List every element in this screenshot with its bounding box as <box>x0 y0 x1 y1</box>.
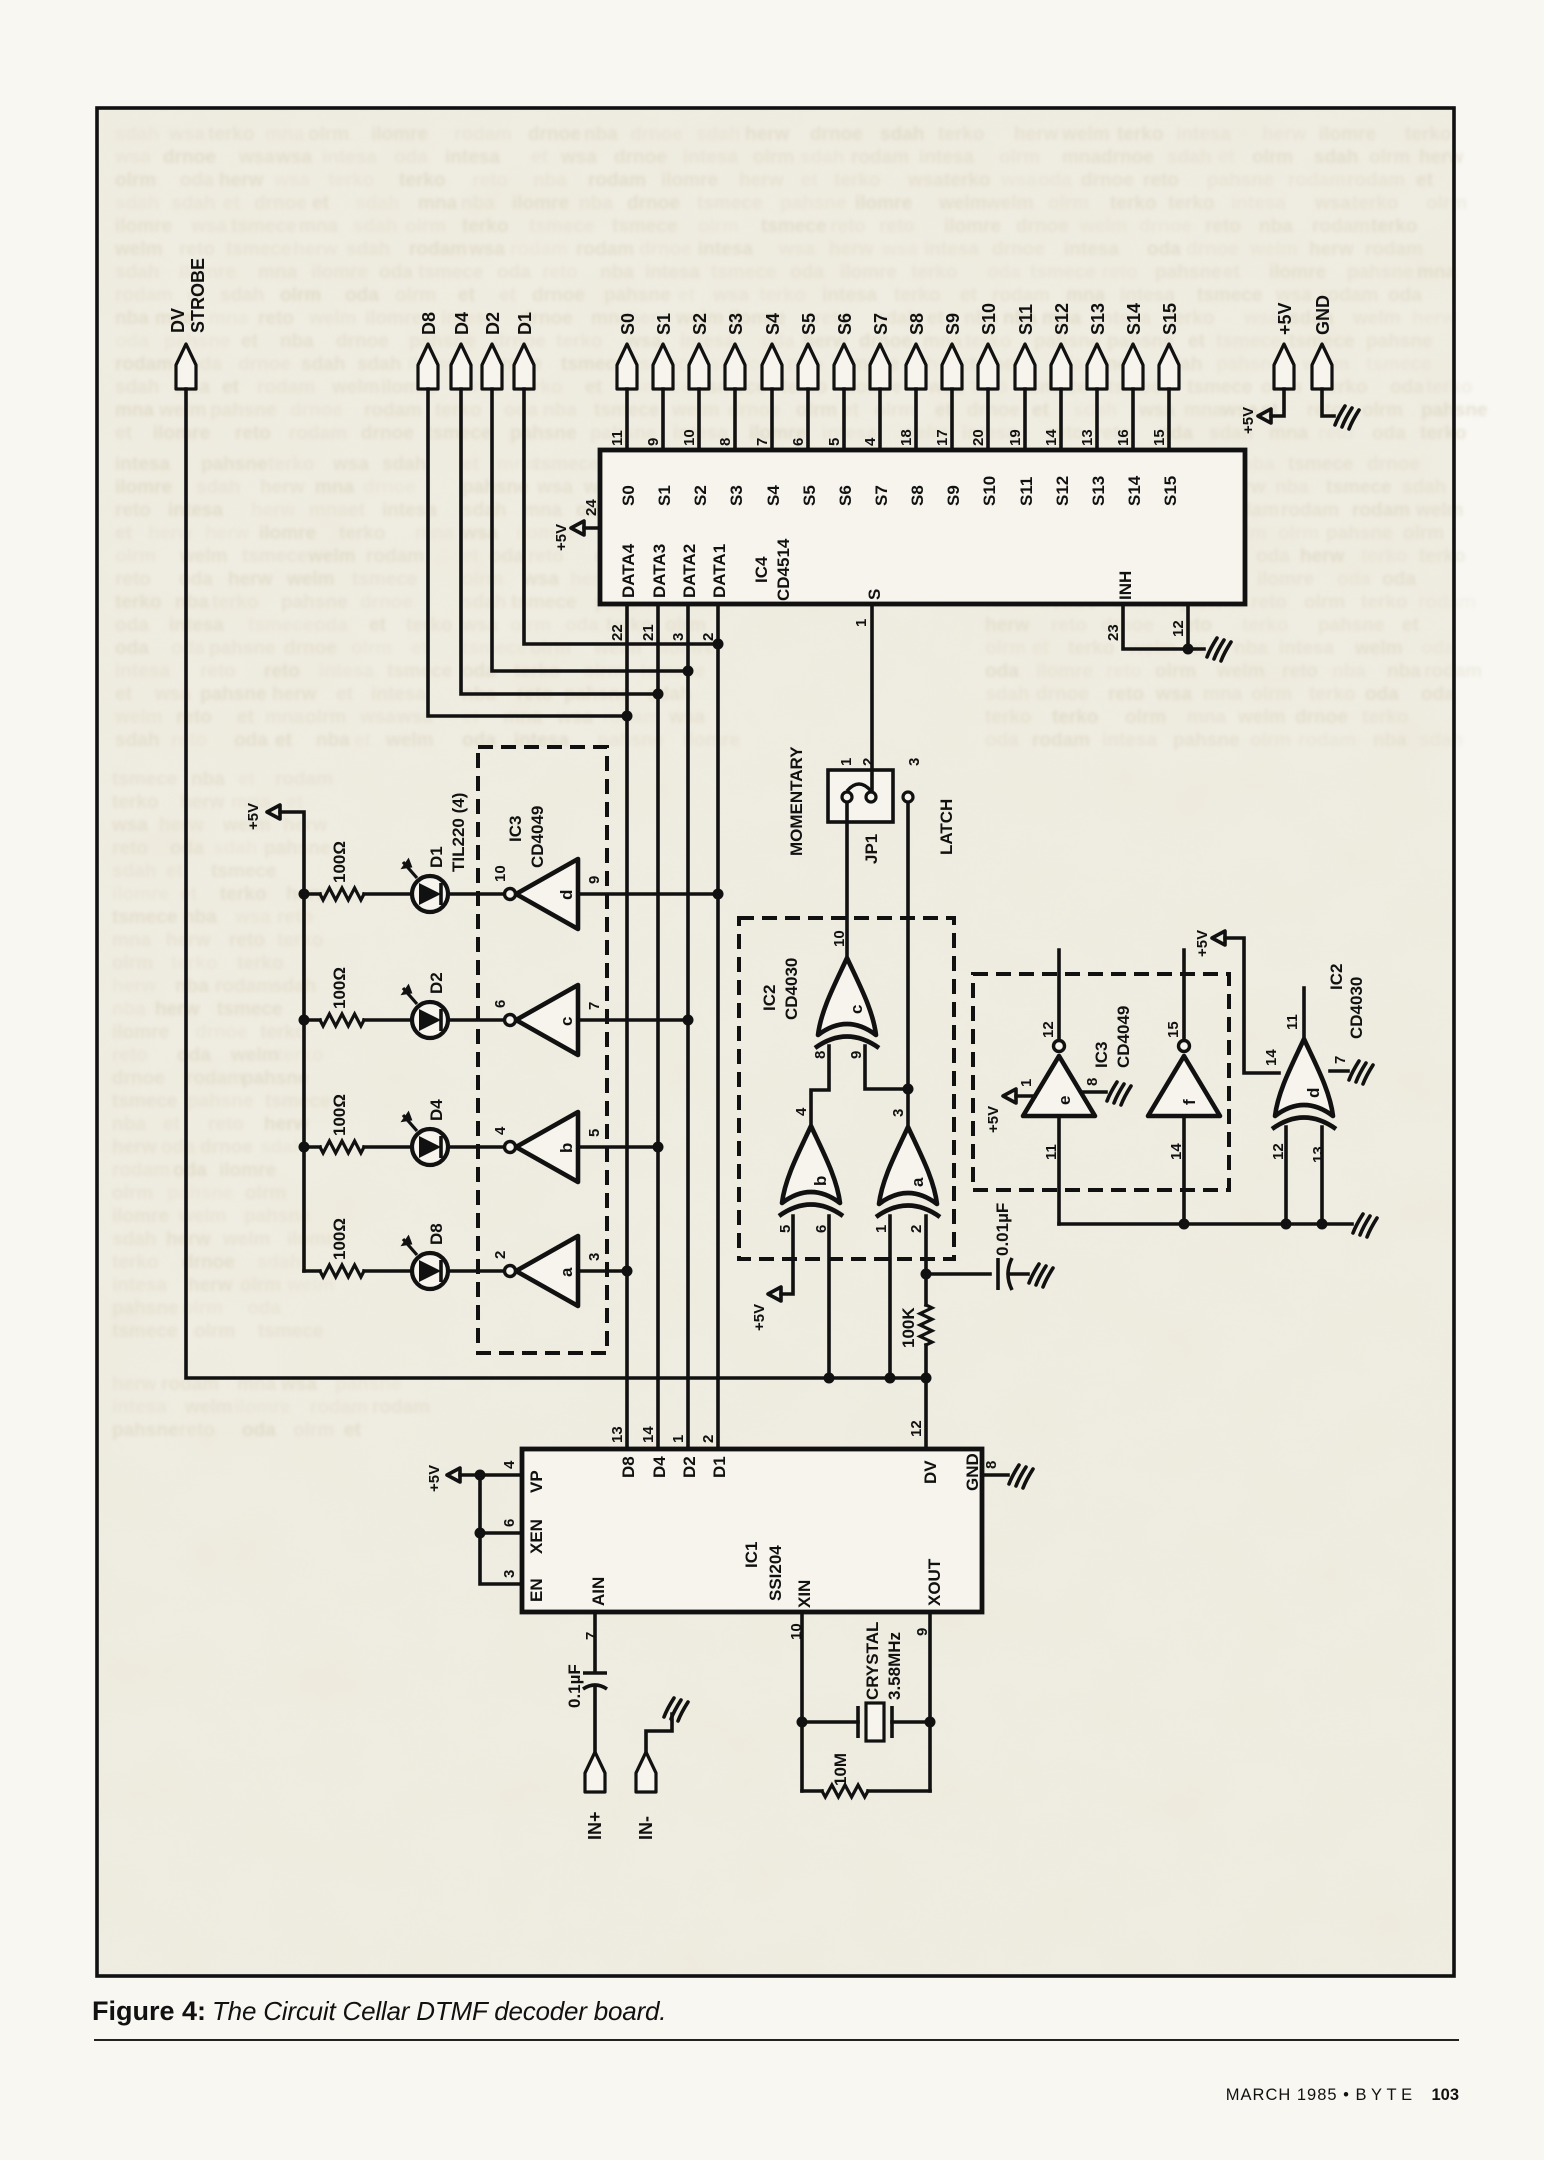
svg-text:D8: D8 <box>427 1223 446 1245</box>
svg-text:sdah: sdah <box>1167 147 1211 168</box>
svg-text:MARCH 1985 • BYTE 103: MARCH 1985 • BYTE 103 <box>1226 2086 1459 2104</box>
svg-text:welm: welm <box>114 707 163 728</box>
svg-text:herw: herw <box>829 239 874 260</box>
svg-text:terko: terko <box>1362 707 1408 728</box>
svg-text:S3: S3 <box>727 485 746 506</box>
svg-text:herw: herw <box>228 569 273 590</box>
svg-text:wsa: wsa <box>536 477 573 498</box>
svg-text:nba: nba <box>584 124 618 145</box>
junction VP node <box>475 1470 486 1481</box>
svg-text:terko: terko <box>894 285 940 306</box>
svg-text:drnoe: drnoe <box>630 124 683 145</box>
svg-text:terko: terko <box>834 170 880 191</box>
svg-text:drnoe: drnoe <box>195 1022 248 1043</box>
svg-text:welm: welm <box>1061 124 1110 145</box>
svg-text:olrm: olrm <box>1252 147 1293 168</box>
svg-text:ilomre: ilomre <box>1257 569 1314 590</box>
svg-text:wsa: wsa <box>114 147 151 168</box>
svg-text:terko: terko <box>171 953 217 974</box>
svg-text:wsa: wsa <box>522 569 559 590</box>
svg-text:herw: herw <box>260 477 305 498</box>
svg-text:rodam: rodam <box>115 285 173 306</box>
svg-text:ilomre: ilomre <box>855 193 912 214</box>
svg-text:pahsne: pahsne <box>167 1183 234 1204</box>
svg-text:3: 3 <box>670 633 687 641</box>
svg-text:et: et <box>1032 638 1050 659</box>
svg-text:mna: mna <box>1066 285 1106 306</box>
svg-text:S1: S1 <box>654 313 674 335</box>
svg-text:wsa: wsa <box>881 239 918 260</box>
svg-text:oda: oda <box>504 400 538 421</box>
svg-text:14: 14 <box>640 1426 657 1443</box>
svg-text:wsa: wsa <box>168 124 205 145</box>
IC3 CD4049 dashed outline <box>478 747 607 1353</box>
svg-text:intesa: intesa <box>112 1397 167 1418</box>
svg-text:drnoe: drnoe <box>1367 454 1420 475</box>
IC1 XOUT pin 9 <box>914 1558 944 1636</box>
svg-text:reto: reto <box>542 262 578 283</box>
connector S12 <box>1051 303 1072 389</box>
svg-text:oda: oda <box>247 1298 281 1319</box>
svg-text:et: et <box>312 193 330 214</box>
svg-text:AIN: AIN <box>589 1577 608 1606</box>
svg-text:et: et <box>678 285 696 306</box>
inverter IC3-f <box>1148 1021 1220 1160</box>
svg-text:CD4514: CD4514 <box>774 538 793 601</box>
wire S1 stub <box>661 389 665 450</box>
svg-text:ilomre: ilomre <box>840 262 897 283</box>
svg-text:herw: herw <box>1419 147 1464 168</box>
svg-text:pahsne: pahsne <box>1173 730 1240 751</box>
svg-text:drnoe: drnoe <box>614 147 667 168</box>
svg-text:ilomre: ilomre <box>944 216 1001 237</box>
svg-text:rodam: rodam <box>310 1397 368 1418</box>
IC1 pin 4 VP <box>501 1460 546 1493</box>
svg-text:sdah: sdah <box>985 684 1029 705</box>
svg-text:sdah: sdah <box>353 216 397 237</box>
svg-text:DV: DV <box>921 1460 940 1484</box>
svg-text:intesa: intesa <box>822 285 877 306</box>
svg-text:nba: nba <box>533 170 567 191</box>
svg-text:olrm: olrm <box>1278 523 1319 544</box>
svg-text:olrm: olrm <box>405 216 446 237</box>
svg-text:oda: oda <box>1256 546 1290 567</box>
wire XOUT column <box>928 1612 932 1791</box>
svg-text:reto: reto <box>115 569 151 590</box>
svg-text:intesa: intesa <box>1064 239 1119 260</box>
svg-text:rodam: rodam <box>1288 170 1346 191</box>
XOR gate IC2-b <box>777 1107 843 1233</box>
wire XOR d input 13 to bus <box>1320 1127 1324 1224</box>
svg-text:oda: oda <box>1421 638 1455 659</box>
svg-text:rodam: rodam <box>992 285 1050 306</box>
svg-text:oda: oda <box>180 170 214 191</box>
svg-text:tsmece: tsmece <box>612 216 678 237</box>
svg-text:D1: D1 <box>515 312 535 335</box>
svg-text:oda: oda <box>1390 377 1424 398</box>
svg-text:ilomre: ilomre <box>661 170 718 191</box>
wire ground bus <box>1059 1222 1352 1226</box>
svg-text:23: 23 <box>1105 624 1122 641</box>
svg-text:S0: S0 <box>618 313 638 335</box>
svg-text:S0: S0 <box>619 485 638 506</box>
svg-text:rodam: rodam <box>372 1397 430 1418</box>
svg-text:intesa: intesa <box>919 147 974 168</box>
svg-text:XIN: XIN <box>795 1580 814 1608</box>
svg-text:olrm: olrm <box>293 1420 334 1441</box>
svg-text:3.58MHz: 3.58MHz <box>885 1632 904 1700</box>
svg-text:oda: oda <box>115 615 149 636</box>
svg-text:terko: terko <box>339 523 385 544</box>
svg-text:intesa: intesa <box>112 1275 167 1296</box>
svg-text:ilomre: ilomre <box>153 423 210 444</box>
svg-text:c: c <box>557 1017 576 1026</box>
wire S15 stub <box>1167 389 1171 450</box>
svg-text:reto: reto <box>235 423 271 444</box>
svg-text:rodam: rodam <box>588 170 646 191</box>
svg-text:IN+: IN+ <box>585 1811 605 1840</box>
svg-text:intesa: intesa <box>683 147 738 168</box>
svg-text:tsmece: tsmece <box>534 454 600 475</box>
svg-text:sdah: sdah <box>112 861 156 882</box>
svg-text:et: et <box>241 331 259 352</box>
wire XOR b pin6 to DV bus <box>827 1216 831 1378</box>
crystal 3.58MHz <box>858 1622 904 1741</box>
svg-text:JP1: JP1 <box>862 834 881 864</box>
svg-text:wsa: wsa <box>907 170 944 191</box>
connector DV STROBE <box>168 258 208 389</box>
svg-text:VP: VP <box>527 1470 546 1493</box>
junction inverter output to column row D2 <box>683 1015 694 1026</box>
svg-text:reto: reto <box>277 907 313 928</box>
wire S5 stub <box>806 389 810 450</box>
svg-text:S9: S9 <box>944 485 963 506</box>
svg-text:et: et <box>115 423 133 444</box>
svg-text:nba: nba <box>112 1114 146 1135</box>
wire LED to inverter row D1 <box>448 892 504 896</box>
svg-text:terko: terko <box>115 592 161 613</box>
svg-text:tsmece: tsmece <box>248 615 314 636</box>
svg-text:18: 18 <box>898 429 915 446</box>
svg-text:reto: reto <box>1143 170 1179 191</box>
svg-text:tsmece: tsmece <box>352 569 418 590</box>
svg-text:et: et <box>115 684 133 705</box>
svg-text:welm: welm <box>1415 500 1464 521</box>
svg-text:oda: oda <box>987 262 1021 283</box>
connector S14 <box>1123 303 1144 389</box>
svg-text:c: c <box>847 1005 866 1014</box>
svg-text:et: et <box>1416 170 1434 191</box>
wire S11 stub <box>1023 389 1027 450</box>
svg-text:pahsne: pahsne <box>281 592 348 613</box>
svg-text:wsa: wsa <box>560 147 597 168</box>
svg-text:3: 3 <box>586 1253 603 1261</box>
svg-text:pahsne: pahsne <box>462 477 529 498</box>
svg-text:drnoe: drnoe <box>363 477 416 498</box>
junction D4 column <box>653 689 664 700</box>
svg-text:drnoe: drnoe <box>254 193 307 214</box>
svg-text:reto: reto <box>1102 262 1138 283</box>
svg-text:et: et <box>223 193 241 214</box>
svg-text:et: et <box>348 500 366 521</box>
wire D4 jog to DATA column <box>461 389 658 694</box>
svg-text:wsa: wsa <box>359 707 396 728</box>
svg-text:9: 9 <box>645 438 662 446</box>
svg-text:CRYSTAL: CRYSTAL <box>863 1622 882 1700</box>
svg-text:intesa: intesa <box>1120 285 1175 306</box>
svg-text:0.01µF: 0.01µF <box>993 1203 1012 1256</box>
svg-text:S5: S5 <box>800 485 819 506</box>
svg-text:welm: welm <box>222 1229 271 1250</box>
svg-text:et: et <box>1218 147 1236 168</box>
junction D2 column <box>683 666 694 677</box>
svg-text:Figure 4:: Figure 4: <box>92 1996 206 2026</box>
connector GND top right <box>1312 295 1333 389</box>
svg-text:et: et <box>1188 331 1206 352</box>
svg-text:S7: S7 <box>872 485 891 506</box>
svg-text:IC2: IC2 <box>760 985 779 1011</box>
svg-text:et: et <box>462 546 480 567</box>
svg-text:S12: S12 <box>1052 303 1072 335</box>
svg-text:reto: reto <box>1106 661 1142 682</box>
wire resistor to LED row D1 <box>364 892 412 896</box>
capacitor 0.01uF <box>993 1203 1012 1290</box>
power +5V XOR b pin5 <box>751 1287 781 1331</box>
svg-text:welm: welm <box>114 239 163 260</box>
connector S0 <box>617 313 638 389</box>
svg-text:pahsne: pahsne <box>264 838 331 859</box>
wire XOR a pin1 to DV bus <box>888 1216 892 1378</box>
svg-text:100Ω: 100Ω <box>330 1094 349 1136</box>
svg-text:tsmece: tsmece <box>112 769 178 790</box>
svg-text:wsa: wsa <box>712 285 749 306</box>
svg-text:S11: S11 <box>1016 304 1036 335</box>
svg-text:reto: reto <box>208 1114 244 1135</box>
svg-text:TIL220 (4): TIL220 (4) <box>449 793 468 872</box>
svg-text:olrm: olrm <box>530 638 571 659</box>
svg-text:DATA4: DATA4 <box>619 543 638 598</box>
svg-text:intesa: intesa <box>1231 193 1286 214</box>
svg-text:rodam: rodam <box>186 1068 244 1089</box>
svg-text:+5V: +5V <box>985 1106 1002 1133</box>
svg-text:S13: S13 <box>1089 476 1108 506</box>
svg-text:welm: welm <box>158 400 207 421</box>
svg-text:8: 8 <box>983 1461 1000 1469</box>
svg-text:et: et <box>1223 262 1241 283</box>
svg-text:rodam: rodam <box>1032 730 1090 751</box>
svg-text:mna: mna <box>1184 400 1224 421</box>
svg-text:terko: terko <box>1361 546 1407 567</box>
svg-text:terko: terko <box>1052 707 1098 728</box>
svg-text:mna: mna <box>209 308 249 329</box>
svg-text:rodam: rodam <box>1365 239 1423 260</box>
svg-text:rodam: rodam <box>510 239 568 260</box>
junction 100K DV bus <box>921 1373 932 1384</box>
junction D8 column <box>622 711 633 722</box>
svg-text:terko: terko <box>759 285 805 306</box>
svg-text:tsmece: tsmece <box>112 1091 178 1112</box>
svg-text:a: a <box>908 1177 927 1187</box>
junction D1 column <box>713 639 724 650</box>
svg-text:terko: terko <box>212 592 258 613</box>
svg-text:mna: mna <box>112 930 152 951</box>
ground e pin8 <box>1107 1082 1131 1105</box>
ground 0.01uF <box>1029 1264 1053 1287</box>
svg-text:olrm: olrm <box>308 124 349 145</box>
svg-text:S2: S2 <box>690 313 710 335</box>
junction inverter output to column row D4 <box>653 1142 664 1153</box>
svg-text:wsa: wsa <box>1314 193 1351 214</box>
svg-text:et: et <box>960 285 978 306</box>
svg-text:mna: mna <box>115 400 155 421</box>
svg-text:oda: oda <box>234 730 268 751</box>
wire XOR c input 9 to latch line <box>865 1046 908 1089</box>
svg-text:+5V: +5V <box>1240 407 1257 434</box>
wire LED to inverter row D8 <box>448 1269 504 1273</box>
svg-text:7: 7 <box>583 1632 600 1640</box>
svg-text:pahsne: pahsne <box>1347 262 1414 283</box>
svg-text:terko: terko <box>462 216 508 237</box>
svg-text:tsmece: tsmece <box>112 907 178 928</box>
svg-text:sdah: sdah <box>462 592 506 613</box>
wire crystal left <box>802 1720 858 1724</box>
svg-text:et: et <box>163 1114 181 1135</box>
svg-text:rodam: rodam <box>257 377 315 398</box>
svg-text:oda: oda <box>173 1160 207 1181</box>
svg-text:12: 12 <box>1040 1021 1057 1038</box>
connector S5 <box>798 313 819 389</box>
svg-text:drnoe: drnoe <box>1186 239 1239 260</box>
svg-text:ilomre: ilomre <box>1036 661 1093 682</box>
svg-text:et: et <box>286 792 304 813</box>
svg-text:terko: terko <box>112 792 158 813</box>
svg-text:S10: S10 <box>979 303 999 335</box>
svg-text:intesa: intesa <box>319 661 374 682</box>
svg-text:D1: D1 <box>427 846 446 868</box>
svg-text:S15: S15 <box>1160 303 1180 335</box>
wire +5V arrow to VP node <box>460 1473 480 1477</box>
svg-text:pahsne: pahsne <box>201 454 268 475</box>
svg-text:et: et <box>458 285 476 306</box>
wire inverter output row D1 <box>578 892 718 896</box>
svg-text:herw: herw <box>293 239 338 260</box>
svg-text:S6: S6 <box>835 313 855 335</box>
svg-text:herw: herw <box>1014 124 1059 145</box>
svg-text:reto: reto <box>1051 615 1087 636</box>
svg-text:D4: D4 <box>427 1099 446 1121</box>
svg-text:sdah: sdah <box>115 193 159 214</box>
svg-text:olrm: olrm <box>1426 193 1467 214</box>
svg-text:nba: nba <box>600 262 634 283</box>
svg-text:herw: herw <box>739 170 784 191</box>
svg-text:herw: herw <box>1300 546 1345 567</box>
svg-text:herw: herw <box>205 523 250 544</box>
svg-text:herw: herw <box>264 1114 309 1135</box>
svg-text:sdah: sdah <box>346 239 390 260</box>
svg-text:tsmece: tsmece <box>761 216 827 237</box>
svg-text:S13: S13 <box>1088 303 1108 335</box>
junction rail row D2 <box>299 1015 310 1026</box>
svg-text:mna: mna <box>315 477 355 498</box>
junction d pin13 bus <box>1317 1219 1328 1230</box>
power +5V IC1 VP <box>426 1465 460 1492</box>
wire crystal right <box>892 1720 930 1724</box>
svg-text:S4: S4 <box>764 485 783 506</box>
svg-text:ilomre: ilomre <box>512 193 569 214</box>
svg-text:10: 10 <box>681 429 698 446</box>
svg-text:nba: nba <box>1259 216 1293 237</box>
svg-text:b: b <box>811 1176 830 1186</box>
connector IN+ <box>585 1752 605 1840</box>
svg-text:terko: terko <box>220 884 266 905</box>
svg-text:DATA1: DATA1 <box>710 544 729 598</box>
caption rule <box>94 2039 1459 2041</box>
svg-text:+5V: +5V <box>426 1465 443 1492</box>
svg-text:DATA3: DATA3 <box>650 544 669 598</box>
wire S8 stub <box>914 389 918 450</box>
svg-text:reto: reto <box>229 930 265 951</box>
svg-text:terko: terko <box>237 953 283 974</box>
svg-text:tsmece: tsmece <box>1288 454 1354 475</box>
svg-text:rodam: rodam <box>115 354 173 375</box>
wire +5V connector stub <box>1271 389 1284 416</box>
wire XOR d input 12 to bus <box>1284 1127 1288 1224</box>
IC4 pin 24 wire <box>583 499 600 528</box>
svg-text:herw: herw <box>219 170 264 191</box>
svg-text:S8: S8 <box>908 485 927 506</box>
svg-text:nba: nba <box>316 730 350 751</box>
svg-text:intesa: intesa <box>924 239 979 260</box>
wire S2 stub <box>697 389 701 450</box>
LED D2 TIL220 <box>400 972 448 1038</box>
svg-text:sdah: sdah <box>462 500 506 521</box>
wire f input pin14 to bus <box>1182 1116 1186 1224</box>
IC4 DATA pin names and numbers <box>609 543 729 641</box>
ground top right <box>1335 406 1359 429</box>
svg-text:+5V: +5V <box>1194 930 1211 957</box>
svg-text:terko: terko <box>208 124 254 145</box>
IC1 pin 8 GND <box>963 1453 1000 1491</box>
svg-text:terko: terko <box>1242 615 1288 636</box>
svg-text:tsmece: tsmece <box>697 193 763 214</box>
svg-text:terko: terko <box>1426 377 1472 398</box>
svg-text:XOUT: XOUT <box>925 1558 944 1606</box>
svg-text:3: 3 <box>906 758 923 766</box>
svg-text:IN-: IN- <box>636 1816 656 1840</box>
wire e pin1 to +5V <box>1016 1094 1035 1098</box>
svg-text:welm: welm <box>230 1045 279 1066</box>
svg-text:herw: herw <box>166 1229 211 1250</box>
svg-text:4: 4 <box>492 1126 509 1135</box>
svg-text:S2: S2 <box>691 485 710 506</box>
wire bus column DATA4 <box>625 604 629 1449</box>
svg-text:sdah: sdah <box>1419 730 1463 751</box>
svg-text:herw: herw <box>745 124 790 145</box>
svg-text:rodam: rodam <box>364 400 422 421</box>
svg-text:oda: oda <box>171 638 205 659</box>
svg-text:IC3: IC3 <box>1092 1042 1111 1068</box>
junction rail row D4 <box>299 1142 310 1153</box>
svg-text:reto: reto <box>1282 661 1318 682</box>
svg-text:reto: reto <box>1108 684 1144 705</box>
wire JP1 pin1 to XOR c output <box>845 803 849 958</box>
svg-text:olrm: olrm <box>999 147 1040 168</box>
wire S10 stub <box>986 389 990 450</box>
svg-text:nba: nba <box>1275 477 1309 498</box>
junction rail row D1 <box>299 889 310 900</box>
svg-text:oda: oda <box>985 730 1019 751</box>
svg-text:+5V: +5V <box>553 524 570 551</box>
